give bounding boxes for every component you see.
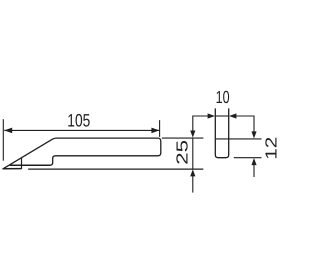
25 top arrowhead (points down)	[190, 131, 195, 138]
105 right extension line	[159, 120, 161, 137]
10 dimension line between extension lines	[215, 115, 228, 117]
svg-text:12: 12	[263, 137, 280, 160]
25 dimension line vertical	[192, 138, 194, 169]
25 bottom arrowhead (points up)	[190, 169, 195, 176]
blade lower bottom line (also 25-dim bottom extension)	[28, 168, 203, 170]
blade tip bottom edge	[3, 168, 22, 170]
12 bottom arrowhead (points up)	[251, 158, 256, 165]
svg-text:10: 10	[216, 87, 230, 107]
12 bottom arrow shaft	[253, 165, 255, 177]
10 right arrowhead (points left)	[229, 113, 236, 118]
10 right arrow shaft chained into 12 top arrow	[236, 116, 254, 132]
105 dimension line	[4, 129, 159, 131]
25 bottom arrow shaft	[192, 176, 194, 193]
10 left arrowhead (points right)	[208, 113, 215, 118]
svg-text:25: 25	[175, 140, 192, 165]
svg-text:105: 105	[67, 111, 90, 131]
25 top arrow shaft chained into 10 left arrow	[193, 116, 208, 132]
blade edge vertical at step of tip	[21, 158, 23, 169]
105 right arrowhead	[151, 128, 159, 134]
end view: side extension lines and rounded bottom	[215, 108, 228, 157]
blade side-view outline (diagonal edge, top edge, rounded right end, bottom of bar, step)	[3, 138, 161, 169]
12 top arrowhead (points down)	[251, 131, 256, 138]
12 bottom extension line	[234, 157, 262, 159]
end view: blade top crossing line / 12 top extension	[215, 138, 261, 140]
25 top extension line	[162, 137, 204, 139]
blade bevel line overlay (thicker)	[10, 164, 50, 166]
105 left arrowhead	[4, 128, 12, 134]
105 left extension line	[2, 119, 4, 161]
